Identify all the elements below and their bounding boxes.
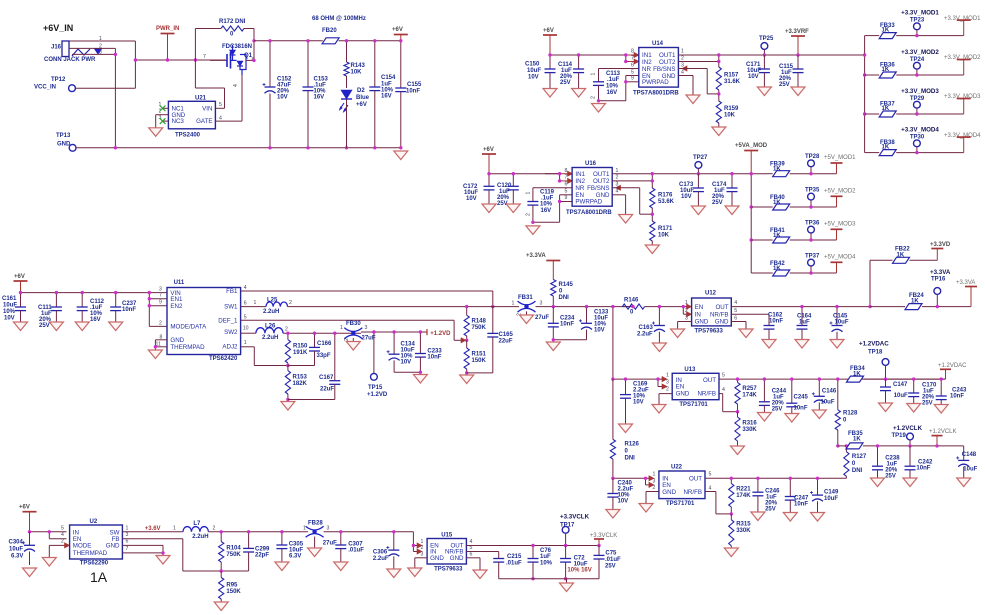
svg-text:GND: GND xyxy=(170,337,184,344)
svg-text:FDC3816N: FDC3816N xyxy=(222,44,252,50)
svg-text:+1.2VD: +1.2VD xyxy=(430,331,451,337)
resistor R159 10K xyxy=(716,101,739,127)
svg-text:10uF: 10uF xyxy=(963,467,977,473)
svg-text:C215: C215 xyxy=(507,554,522,560)
svg-text:68 OHM @ 100MHz: 68 OHM @ 100MHz xyxy=(312,16,366,22)
ground U12 left xyxy=(671,329,685,338)
net label +6V_IN xyxy=(43,23,73,33)
svg-text:C149: C149 xyxy=(824,490,839,496)
svg-text:25V: 25V xyxy=(560,80,571,86)
capacitor C76 1uF xyxy=(528,544,553,581)
wire U16 input rail xyxy=(489,173,560,175)
svg-text:2.2uF: 2.2uF xyxy=(637,332,653,338)
ground C243 xyxy=(934,405,948,414)
wire U16 OUT2 xyxy=(612,172,654,188)
ground C172 xyxy=(482,204,496,213)
wire U13 GND to ground xyxy=(659,394,672,405)
capacitor C152 47uF xyxy=(263,39,293,149)
ground C162 xyxy=(762,340,776,349)
capacitor C149 10uF xyxy=(810,477,839,513)
capacitor C246 1uF xyxy=(752,477,780,513)
svg-text:2: 2 xyxy=(681,55,684,61)
svg-text:TPS62420: TPS62420 xyxy=(209,356,238,362)
svg-text:31.6K: 31.6K xyxy=(724,79,741,85)
svg-text:4: 4 xyxy=(681,69,684,75)
svg-text:DNI: DNI xyxy=(559,295,570,301)
svg-text:10V: 10V xyxy=(466,196,477,202)
svg-text:10nF: 10nF xyxy=(916,466,930,472)
ferrite bead FB34 1K xyxy=(847,366,946,382)
ferrite bead FB37 1K xyxy=(865,101,964,117)
IC U13 TPS71701 xyxy=(666,367,725,408)
capacitor C163 2.2uF xyxy=(637,305,665,343)
svg-text:DNI: DNI xyxy=(852,468,863,474)
svg-text:R126: R126 xyxy=(625,442,640,448)
wire FB31 to U12 row xyxy=(536,306,634,308)
svg-text:TPS71701: TPS71701 xyxy=(679,402,708,408)
svg-text:NR: NR xyxy=(642,66,651,73)
capacitor C112 .1uF xyxy=(77,291,105,323)
svg-text:C166: C166 xyxy=(317,341,332,347)
svg-text:10V: 10V xyxy=(681,194,692,200)
svg-text:3: 3 xyxy=(159,287,162,293)
svg-text:+3.3V_MOD2: +3.3V_MOD2 xyxy=(901,49,939,56)
svg-text:R150: R150 xyxy=(293,344,308,350)
svg-text:D2: D2 xyxy=(357,88,365,94)
power symbol +5VA_MOD xyxy=(735,143,768,174)
svg-text:+3.3V_MOD3: +3.3V_MOD3 xyxy=(901,88,939,95)
net label +3.3V_MOD2 bold xyxy=(901,49,939,56)
ground U21 xyxy=(149,128,163,137)
svg-text:5: 5 xyxy=(565,189,568,195)
svg-text:27uF: 27uF xyxy=(535,315,549,321)
svg-text:R128: R128 xyxy=(843,411,858,417)
svg-text:9: 9 xyxy=(159,300,162,306)
svg-text:R316: R316 xyxy=(742,421,757,427)
svg-text:R127: R127 xyxy=(852,454,867,460)
test point TP16 xyxy=(931,277,946,309)
wire U11 FB1 to output xyxy=(241,291,495,308)
ground R151 C165 xyxy=(460,375,474,384)
wire U22 NRFB xyxy=(705,492,731,514)
svg-text:+5V_MOD4: +5V_MOD4 xyxy=(824,254,856,260)
wire U14 OUT2 xyxy=(678,53,720,67)
svg-text:+1.2VCLK: +1.2VCLK xyxy=(893,425,923,432)
power symbol +6V U2 xyxy=(19,505,37,532)
capacitor C247 10nF xyxy=(785,477,809,513)
svg-text:10uF: 10uF xyxy=(527,68,541,74)
svg-text:OUT2: OUT2 xyxy=(659,59,676,66)
ground C307 xyxy=(334,562,348,571)
resistor R315 330K xyxy=(729,514,752,548)
resistor R172 DNI 0 xyxy=(195,19,254,60)
svg-text:C148: C148 xyxy=(962,452,977,458)
resistor R95 150K xyxy=(219,571,242,602)
ground C119 PWRPAD xyxy=(526,226,540,235)
svg-text:FB28: FB28 xyxy=(308,521,323,527)
svg-text:+3.3VCLK: +3.3VCLK xyxy=(590,533,618,539)
svg-text:TPS2400: TPS2400 xyxy=(175,133,201,139)
svg-text:DNI: DNI xyxy=(625,456,636,462)
ground C305 xyxy=(275,562,289,571)
svg-text:TP27: TP27 xyxy=(693,155,708,161)
pin arrow U15 EN xyxy=(417,543,422,548)
net flag +3.3V_MOD1 xyxy=(944,16,981,36)
svg-text:10V: 10V xyxy=(528,75,539,81)
IC U16 TPS7A8001DRB xyxy=(565,161,619,216)
resistor R143 10K xyxy=(344,39,366,149)
svg-text:3: 3 xyxy=(365,325,368,331)
svg-text:2.2uF: 2.2uF xyxy=(373,556,389,562)
ground R159 xyxy=(712,127,726,136)
wire Q1 gate to U21 GATE xyxy=(215,75,242,121)
ground C242 xyxy=(903,478,917,487)
svg-text:U16: U16 xyxy=(585,161,597,167)
ferrite bead FB38 1K xyxy=(865,140,964,156)
svg-text:182K: 182K xyxy=(293,381,308,387)
capacitor C119 .1uF xyxy=(526,188,573,223)
svg-text:4: 4 xyxy=(244,285,247,291)
svg-text:+3.3VRF: +3.3VRF xyxy=(785,29,809,35)
ground U12 right xyxy=(739,329,753,338)
capacitor C171 10uF xyxy=(746,55,770,87)
wire U2 FB loop xyxy=(122,539,248,571)
wire U22 input rail xyxy=(611,477,649,480)
capacitor C233 10nF xyxy=(394,330,442,374)
ground C234 C133 xyxy=(546,342,560,351)
svg-text:R104: R104 xyxy=(226,546,241,552)
wire U11 ADJ2 sense xyxy=(241,347,288,366)
svg-text:150K: 150K xyxy=(226,589,241,595)
svg-text:25V: 25V xyxy=(605,564,616,570)
svg-text:FB/SNS: FB/SNS xyxy=(587,185,609,192)
resistor R145 0 DNI xyxy=(551,280,574,309)
svg-text:1: 1 xyxy=(173,526,176,532)
net flag +1.2VDAC xyxy=(938,363,967,379)
svg-text:+6V: +6V xyxy=(14,274,25,280)
svg-text:.01uF: .01uF xyxy=(506,561,522,567)
svg-text:5: 5 xyxy=(244,314,247,320)
svg-text:U12: U12 xyxy=(705,291,717,297)
test point TP18 xyxy=(868,350,889,381)
svg-text:33pF: 33pF xyxy=(317,353,331,359)
svg-text:OUT: OUT xyxy=(703,377,716,384)
capacitor C111 1uF xyxy=(38,291,62,329)
svg-text:10uF: 10uF xyxy=(835,320,849,326)
wire U15 input drop xyxy=(412,532,417,552)
wire U11 input rail xyxy=(21,292,168,294)
ferrite bead FB20 68 OHM @ 100MHz xyxy=(312,16,366,44)
svg-text:R151: R151 xyxy=(472,352,487,358)
net label +3.3V_MOD1 bold xyxy=(901,10,939,17)
net flag +5V_MOD1 xyxy=(824,155,856,174)
ground C237 xyxy=(109,322,123,331)
svg-text:10V: 10V xyxy=(4,316,15,322)
svg-text:R171: R171 xyxy=(658,226,673,232)
resistor R126 0 DNI xyxy=(610,379,639,478)
svg-text:8: 8 xyxy=(565,168,568,174)
svg-text:GND: GND xyxy=(715,319,729,326)
svg-text:1A: 1A xyxy=(90,569,108,585)
svg-text:C147: C147 xyxy=(893,382,908,388)
svg-text:1: 1 xyxy=(681,49,684,55)
junction J16 pin3 xyxy=(114,53,117,56)
capacitor C155 10nF xyxy=(395,39,422,149)
svg-text:1K: 1K xyxy=(853,437,861,443)
svg-text:U14: U14 xyxy=(652,41,664,47)
ground U15 left xyxy=(408,568,422,577)
capacitor C174 1uF xyxy=(712,172,738,206)
svg-text:C167: C167 xyxy=(319,375,334,381)
svg-text:U22: U22 xyxy=(671,465,683,471)
ground R171 xyxy=(645,245,659,254)
capacitor C244 1uF xyxy=(759,377,787,412)
svg-text:16V: 16V xyxy=(541,208,552,214)
svg-text:CONN JACK PWR: CONN JACK PWR xyxy=(44,57,96,63)
capacitor C164 1uF xyxy=(797,305,813,340)
wire U22 OUT row xyxy=(705,477,846,479)
svg-text:10V: 10V xyxy=(618,499,629,505)
svg-text:3: 3 xyxy=(540,301,543,307)
svg-text:R172 DNI: R172 DNI xyxy=(219,19,246,25)
svg-text:330K: 330K xyxy=(736,528,751,534)
capacitor C305 10uF xyxy=(276,530,303,562)
svg-text:+6V: +6V xyxy=(543,28,554,34)
svg-text:25V: 25V xyxy=(765,507,776,513)
ground output rail xyxy=(560,583,574,592)
wire U14 IN split xyxy=(624,53,636,63)
svg-text:EN2: EN2 xyxy=(170,303,183,310)
svg-text:4: 4 xyxy=(616,189,619,195)
ground C146 xyxy=(812,410,826,419)
svg-text:2: 2 xyxy=(421,545,424,551)
ground U22 xyxy=(639,504,653,513)
svg-text:C306: C306 xyxy=(373,550,388,556)
svg-text:GND: GND xyxy=(596,192,610,199)
svg-text:GATE: GATE xyxy=(196,118,212,125)
capacitor C170 1uF xyxy=(908,377,937,406)
svg-text:R159: R159 xyxy=(724,106,739,112)
ground C246 xyxy=(751,512,765,521)
ground C247 xyxy=(783,513,797,522)
svg-text:+6V: +6V xyxy=(392,27,403,33)
feed-through filter FB30 27uF xyxy=(340,321,376,342)
wire U12 EN IN split xyxy=(682,305,687,314)
resistor R157 31.6K xyxy=(716,67,740,101)
test point TP35 xyxy=(805,187,820,208)
svg-text:1: 1 xyxy=(591,73,597,76)
svg-text:5: 5 xyxy=(722,373,725,379)
svg-text:53.6K: 53.6K xyxy=(658,199,675,205)
wire U14 OUT1 rail xyxy=(678,54,864,56)
ground C148 xyxy=(957,478,971,487)
svg-text:+6V_IN: +6V_IN xyxy=(43,23,73,33)
svg-text:R221: R221 xyxy=(736,487,751,493)
svg-text:TP19: TP19 xyxy=(892,433,907,439)
capacitor C306 2.2uF xyxy=(373,530,399,569)
svg-text:NC3: NC3 xyxy=(172,118,185,125)
svg-text:16V: 16V xyxy=(381,94,392,100)
wire U15 GND right xyxy=(466,558,480,570)
capacitor C162 10nF xyxy=(764,313,784,340)
resistor R257 174K xyxy=(735,377,758,413)
net label +3.3VCLK bold xyxy=(560,514,590,521)
svg-text:10uF: 10uF xyxy=(894,393,908,399)
svg-text:+3.3VA: +3.3VA xyxy=(930,269,951,276)
svg-text:VCC_IN: VCC_IN xyxy=(34,85,56,91)
net flag +5V_MOD2 xyxy=(824,188,856,207)
ground C112 xyxy=(75,322,89,331)
svg-text:10%: 10% xyxy=(606,84,619,90)
ground C171 xyxy=(757,87,771,96)
svg-text:2: 2 xyxy=(526,213,532,216)
svg-text:TP16: TP16 xyxy=(931,277,946,283)
svg-text:J16: J16 xyxy=(51,45,62,51)
resistor R176 53.6K xyxy=(650,188,675,221)
svg-text:VIN: VIN xyxy=(202,105,212,112)
svg-text:16V: 16V xyxy=(314,95,325,101)
wire branch to U13 U22 xyxy=(611,305,614,379)
ferrite bead FB33 1K xyxy=(865,23,964,39)
IC U21 TPS2400 xyxy=(159,96,223,139)
svg-text:22uF: 22uF xyxy=(320,387,334,393)
svg-text:3: 3 xyxy=(327,526,330,532)
svg-text:TPS7A8001DRB: TPS7A8001DRB xyxy=(633,91,679,97)
svg-text:10K: 10K xyxy=(658,233,670,239)
capacitor C134 10uF xyxy=(387,330,416,372)
svg-text:TP15: TP15 xyxy=(368,385,383,391)
svg-text:NR: NR xyxy=(575,185,584,192)
wire +6V input rail xyxy=(135,59,226,61)
capacitor C161 10uF xyxy=(2,291,26,322)
wire U16 FB sense xyxy=(612,188,652,214)
no-connect U21 pin1 xyxy=(160,106,166,112)
svg-text:+5V_MOD1: +5V_MOD1 xyxy=(824,155,856,161)
svg-text:5: 5 xyxy=(219,102,222,108)
svg-text:10nF: 10nF xyxy=(794,502,808,508)
ground R316 xyxy=(731,446,745,455)
wire +3.3VRF distribution bus xyxy=(863,36,866,153)
svg-text:DEF_1: DEF_1 xyxy=(218,318,238,325)
svg-text:+1.2VD: +1.2VD xyxy=(367,392,388,398)
svg-text:10K: 10K xyxy=(724,113,736,119)
inductor L26 2.2uH xyxy=(241,324,361,342)
svg-text:25V: 25V xyxy=(885,474,896,480)
svg-text:.01uF: .01uF xyxy=(605,557,621,563)
svg-text:Blue: Blue xyxy=(356,95,370,101)
ground C170 xyxy=(907,404,921,413)
svg-text:FB31: FB31 xyxy=(518,295,533,301)
svg-text:+3.3VCLK: +3.3VCLK xyxy=(560,514,590,521)
IC U22 TPS71701 xyxy=(653,465,712,508)
capacitor C234 10nF xyxy=(548,307,575,340)
capacitor C167 22uF xyxy=(288,332,340,400)
test point TP15 xyxy=(367,330,388,398)
pin arrow U2 MODE xyxy=(65,543,70,548)
test point TP27 xyxy=(693,155,708,175)
ground C244 xyxy=(757,413,771,422)
transistor Q1 FDC3816N xyxy=(203,44,255,75)
svg-text:R148: R148 xyxy=(472,319,487,325)
svg-text:6.3V: 6.3V xyxy=(11,554,23,560)
ground C149 xyxy=(811,513,825,522)
capacitor C113 .1uF xyxy=(591,69,639,101)
svg-text:10nF: 10nF xyxy=(794,406,808,412)
capacitor C72 10uF xyxy=(560,546,592,581)
net flag +3.3VD xyxy=(930,242,951,260)
svg-text:10nF: 10nF xyxy=(427,355,441,361)
svg-text:2: 2 xyxy=(61,539,64,545)
ground U16 GND xyxy=(619,215,633,224)
ground C163 xyxy=(652,343,666,352)
ground C164 xyxy=(795,340,809,349)
pin arrow U22 EN xyxy=(649,482,654,487)
wire up to FB22 xyxy=(868,260,892,308)
wire U2 GND THERMPAD to ground xyxy=(122,545,164,555)
svg-text:PWR_IN: PWR_IN xyxy=(156,26,179,32)
svg-text:7: 7 xyxy=(126,546,129,552)
ground U14 GND xyxy=(686,95,700,104)
svg-text:FB/SNS: FB/SNS xyxy=(653,66,675,73)
svg-text:10%: 10% xyxy=(3,309,16,315)
svg-text:NR/FB: NR/FB xyxy=(683,489,702,496)
capacitor C307 .01uF xyxy=(335,530,364,562)
svg-text:174K: 174K xyxy=(736,493,751,499)
svg-text:IN2: IN2 xyxy=(642,59,652,66)
svg-text:+5VA_MOD: +5VA_MOD xyxy=(735,143,768,149)
resistor R151 150K xyxy=(464,340,486,374)
ground R95 xyxy=(214,602,228,611)
svg-text:16V: 16V xyxy=(607,90,618,96)
svg-text:25V: 25V xyxy=(772,407,783,413)
capacitor C148 10uF xyxy=(956,446,977,478)
svg-text:27uF: 27uF xyxy=(323,541,337,547)
svg-text:1: 1 xyxy=(244,340,247,346)
capacitor C147 10uF xyxy=(880,379,908,403)
net flag +3.3VA xyxy=(956,280,977,307)
wire U2 EN tie xyxy=(48,530,67,539)
svg-text:+1.2VDAC: +1.2VDAC xyxy=(938,363,967,369)
junction Q1 drain xyxy=(252,59,255,62)
svg-text:10V: 10V xyxy=(633,400,644,406)
wire U14 GND pin to ground xyxy=(678,76,693,96)
ground FB30 xyxy=(346,342,360,351)
resistor R150 191K xyxy=(285,332,308,368)
resistor R171 10K xyxy=(650,221,673,245)
pin arrow U14 IN1 xyxy=(634,52,639,57)
capacitor C150 10uF xyxy=(525,53,556,88)
wire U16 OUT1 rail xyxy=(612,173,766,175)
net flag +1.2VCLK xyxy=(929,429,957,448)
wire GND rail xyxy=(76,147,401,149)
ground U15 right xyxy=(473,570,487,579)
ground C113 PWRPAD xyxy=(592,104,606,113)
svg-text:10nF: 10nF xyxy=(406,89,420,95)
svg-text:1: 1 xyxy=(254,300,257,306)
LED D2 Blue xyxy=(339,88,370,148)
resistor R104 750K xyxy=(219,530,242,573)
pin arrow divider sense xyxy=(461,338,466,343)
ground U13 xyxy=(652,405,666,414)
svg-text:C155: C155 xyxy=(407,82,422,88)
resistor R153 182K xyxy=(285,366,307,402)
wire U21 GND to ground xyxy=(156,115,169,128)
svg-text:+6V: +6V xyxy=(483,147,494,153)
svg-text:EN: EN xyxy=(695,304,704,311)
svg-text:3: 3 xyxy=(421,552,424,558)
power symbol PWR_IN xyxy=(156,26,179,60)
svg-text:R176: R176 xyxy=(658,193,673,199)
